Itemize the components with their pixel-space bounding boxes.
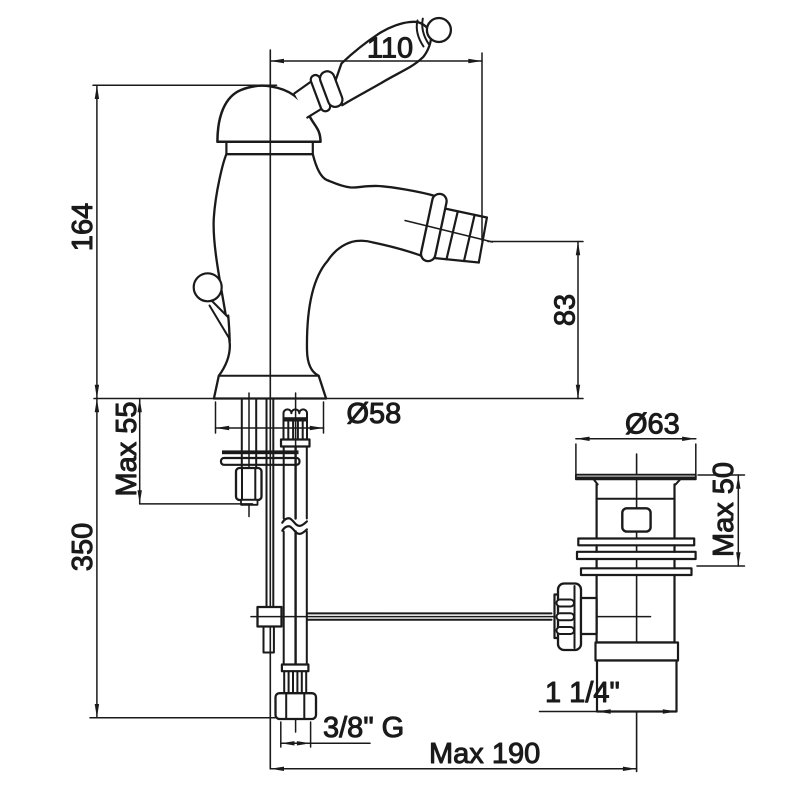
drain coupling — [596, 643, 679, 661]
drain body upper — [597, 484, 675, 538]
dimension Max 55 bottom extension — [140, 503, 253, 505]
dimension Max 190 line — [270, 767, 636, 771]
dimension D58 extensions — [216, 402, 324, 433]
label 164 — [67, 203, 99, 251]
spout axis centerline — [405, 221, 493, 243]
svg-text:Ø63: Ø63 — [625, 409, 680, 441]
label 110 — [367, 33, 413, 65]
stud rod left outline — [242, 399, 256, 469]
dimension Max 50 extensions — [697, 475, 745, 566]
knurled knob body — [558, 584, 581, 651]
dimension 110 extension right — [481, 53, 483, 241]
svg-text:3/8" G: 3/8" G — [323, 712, 404, 744]
handle top collar — [417, 19, 429, 47]
hose top fitting ribs — [284, 422, 308, 440]
label D63 — [625, 409, 680, 441]
handle ball finial — [427, 18, 451, 42]
handle collar ring 1 — [309, 74, 331, 113]
dimension D58 line — [216, 426, 324, 430]
dimension D63 line — [576, 437, 696, 441]
horizontal linkage rod — [308, 613, 552, 619]
dimension 83 top extension — [488, 241, 583, 243]
dimension 110 line — [270, 59, 482, 63]
drain centerline — [636, 454, 638, 772]
svg-text:83: 83 — [550, 294, 582, 326]
handle collar ring 2 — [318, 69, 345, 109]
pop-up rod clamp — [258, 607, 282, 627]
knurled knob left plate — [555, 595, 573, 639]
dimension Max 55 line — [138, 399, 142, 504]
drain plate 1 — [578, 539, 694, 546]
svg-text:110: 110 — [367, 33, 413, 65]
supply hose lines — [284, 447, 307, 665]
drain square hole — [622, 508, 650, 531]
label Max 55 — [111, 401, 143, 496]
handle neck fill — [294, 77, 328, 118]
dimension D63 extensions — [576, 444, 696, 474]
drain plate 3 — [581, 568, 692, 575]
countertop line — [94, 398, 583, 400]
knurl pills — [557, 600, 575, 635]
hose end threads — [284, 671, 306, 693]
drain flange — [576, 475, 696, 485]
washer bar under base — [222, 450, 299, 454]
hose hex nut 3/8 — [276, 693, 317, 719]
drain body segments between plates — [597, 545, 675, 642]
hose top fitting flange — [281, 440, 310, 447]
label Max 190 — [429, 738, 540, 770]
svg-text:Max 190: Max 190 — [429, 738, 540, 770]
label 83 — [550, 294, 582, 326]
dimension 350 line — [95, 399, 99, 718]
linkage centerline — [251, 616, 651, 618]
horseshoe mounting plate — [221, 458, 300, 465]
drain pull ball — [194, 273, 222, 301]
knob connector to drain — [581, 598, 597, 634]
svg-text:164: 164 — [67, 203, 99, 251]
spout aerator — [434, 208, 487, 263]
faucet collar side lines under dome — [226, 142, 312, 154]
svg-text:Max 55: Max 55 — [111, 401, 143, 496]
dimension 164 line — [95, 85, 99, 398]
hose centerline — [295, 393, 297, 732]
drain pull ball lever rod — [210, 301, 230, 342]
svg-text:Ø58: Ø58 — [347, 398, 402, 430]
label 350 — [67, 523, 99, 571]
dimension 3/8 G line — [281, 722, 370, 747]
hose end ferrule — [282, 665, 309, 672]
label 1 1/4 — [545, 677, 620, 709]
faucet body and spout outline — [214, 154, 435, 398]
dimension 164 top extension — [93, 84, 277, 86]
spout end ring — [420, 193, 448, 263]
label Max 50 — [708, 462, 740, 557]
dimension 350 bottom extension — [90, 717, 275, 719]
pop-up rod — [267, 399, 274, 608]
faucet dome cap — [217, 86, 320, 142]
svg-text:350: 350 — [67, 523, 99, 571]
hose top fitting crown — [283, 409, 309, 421]
faucet centerline — [269, 50, 271, 769]
drain body joint line — [597, 498, 675, 500]
hose break symbol — [282, 518, 307, 534]
label D58 — [347, 398, 402, 430]
drain tailpiece — [597, 661, 677, 712]
dimension 83 line — [576, 242, 580, 399]
pop-up rod lower tip — [264, 627, 274, 653]
mounting nut — [236, 468, 262, 500]
handle grip — [335, 22, 431, 105]
svg-text:1 1/4": 1 1/4" — [545, 677, 620, 709]
dimension Max 50 line — [736, 475, 740, 566]
drain plate 2 — [577, 552, 696, 559]
stud rod centerline — [248, 393, 250, 517]
base top line — [219, 375, 319, 377]
label 3/8 G — [323, 712, 404, 744]
nut collar — [241, 500, 258, 505]
dimension 1 1/4 line — [540, 709, 677, 713]
svg-text:Max 50: Max 50 — [708, 462, 740, 557]
